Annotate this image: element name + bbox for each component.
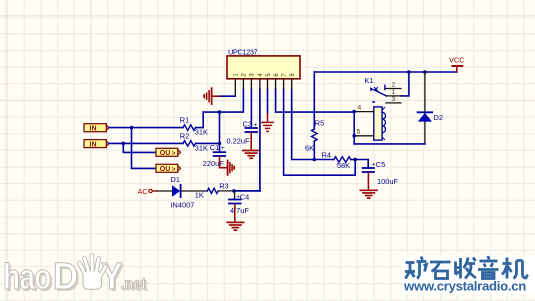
ground (pin 5) xyxy=(262,122,273,131)
svg-text:0.22uF: 0.22uF xyxy=(227,136,250,145)
svg-text:5: 5 xyxy=(357,129,361,136)
contact pin 3 xyxy=(373,101,377,103)
wire coil bottom to D2 xyxy=(354,143,425,145)
wire pin2 down and left xyxy=(203,90,243,113)
svg-text:6K: 6K xyxy=(305,143,314,152)
svg-text:100uF: 100uF xyxy=(377,177,398,186)
armature pivot xyxy=(370,87,374,91)
wire R1 right up to pin2 net xyxy=(196,127,204,129)
pin 5 coil lead xyxy=(354,135,374,137)
ground (below C4) xyxy=(227,222,243,230)
wire C1 riser xyxy=(219,112,221,143)
svg-text:R4: R4 xyxy=(322,150,331,159)
svg-text:VCC: VCC xyxy=(449,56,465,65)
power stub below C1 xyxy=(220,157,228,168)
pin 4 coil lead xyxy=(354,111,374,113)
power stub pin5 ground xyxy=(267,114,269,123)
svg-text:C1: C1 xyxy=(210,143,219,152)
wire rail down to relay common xyxy=(401,72,409,96)
wire pin1 to ground xyxy=(219,95,235,97)
wire R4 to C5 node xyxy=(351,159,355,161)
power stub below C5 xyxy=(367,173,369,190)
resistor R2 xyxy=(180,132,208,153)
port AC xyxy=(138,187,158,196)
wire IN2 tap to OUT1 xyxy=(123,143,156,152)
wire D2 vertical lead xyxy=(424,72,426,144)
wire R3 to C4 node xyxy=(218,190,235,192)
glyph kuang xyxy=(405,257,427,279)
svg-text:IN: IN xyxy=(90,142,97,149)
wire to C5 top xyxy=(355,160,368,168)
svg-text:>: > xyxy=(172,166,176,173)
wire C4 node to pin4 drop xyxy=(235,190,260,192)
wire red stub to signal ground xyxy=(212,95,220,97)
svg-text:R1: R1 xyxy=(180,115,189,124)
glyph yin xyxy=(478,256,499,279)
wire IN2 to R2 xyxy=(109,142,183,144)
ground (below C3) xyxy=(243,151,260,159)
wire IN1 to R1 xyxy=(109,127,183,129)
svg-text:31K: 31K xyxy=(195,127,208,136)
wire D1 to R3 xyxy=(182,190,208,192)
ground (below C5) xyxy=(360,190,377,198)
svg-text:IN4007: IN4007 xyxy=(171,200,195,209)
svg-text:4: 4 xyxy=(358,105,362,112)
node junction IN2 xyxy=(122,142,126,146)
diode D1 IN4007 xyxy=(171,175,195,210)
op-amp U1 UPC1237 body xyxy=(227,48,300,79)
power stub below C4 xyxy=(234,204,236,222)
wire AC to D1 xyxy=(157,190,172,192)
svg-text:+: + xyxy=(254,122,258,129)
svg-text:1K: 1K xyxy=(195,190,204,199)
svg-text:>: > xyxy=(172,150,176,157)
svg-text:4.7uF: 4.7uF xyxy=(230,206,249,215)
svg-text:R2: R2 xyxy=(180,132,189,141)
svg-text:C4: C4 xyxy=(240,193,249,202)
wire R5 bottom to node xyxy=(313,141,315,160)
wire pin5 to ground xyxy=(267,90,269,114)
resistor R4 xyxy=(322,150,351,170)
svg-text:31K: 31K xyxy=(195,143,208,152)
svg-text:www.crystalradio.cn: www.crystalradio.cn xyxy=(403,279,526,294)
wire node to R4 xyxy=(314,159,334,161)
svg-text:OU: OU xyxy=(160,166,171,173)
node junction coil top xyxy=(352,110,356,114)
svg-text:D2: D2 xyxy=(434,113,443,122)
capacitor C3 xyxy=(227,119,258,145)
node junction IN1 xyxy=(130,126,134,130)
resistor R1 xyxy=(180,115,208,136)
wire pin6 to relay coil xyxy=(276,90,355,113)
ground (rotated, pin 1) xyxy=(204,88,211,104)
pin 7 lead xyxy=(283,79,285,90)
wire pin3 to C3 xyxy=(250,90,252,128)
capacitor C4 xyxy=(229,191,249,215)
svg-text:R3: R3 xyxy=(219,181,228,190)
svg-text:K1: K1 xyxy=(364,76,373,85)
svg-text:3: 3 xyxy=(392,96,396,103)
svg-text:+: + xyxy=(221,145,225,152)
svg-text:OU: OU xyxy=(160,150,171,157)
resistor R5 xyxy=(305,119,324,153)
glyph shou xyxy=(456,258,477,279)
node junction relay feed xyxy=(407,70,411,74)
watermark crystalradio box xyxy=(402,255,535,294)
wire down to R1 xyxy=(202,112,204,128)
armature blade xyxy=(374,90,387,96)
svg-text:AC: AC xyxy=(138,187,149,196)
glyph shi xyxy=(430,262,451,279)
wire VCC rail xyxy=(314,71,457,73)
node junction R5/R4/pin8 xyxy=(313,158,317,162)
relay K1 xyxy=(364,76,401,103)
svg-text:D: D xyxy=(53,255,78,298)
svg-text:R5: R5 xyxy=(315,119,324,128)
wire pin4 long drop to AC node xyxy=(259,90,261,191)
port IN 1 xyxy=(84,124,109,133)
svg-text:UPC1237: UPC1237 xyxy=(228,48,258,57)
svg-text:2: 2 xyxy=(392,81,396,88)
port OUT 2 xyxy=(156,164,181,173)
node junction D2 top xyxy=(423,70,427,74)
glyph ji xyxy=(502,258,528,279)
svg-text:58K: 58K xyxy=(337,161,350,170)
svg-text:D1: D1 xyxy=(171,175,180,184)
power stub below C3 xyxy=(250,133,252,150)
svg-text:IN: IN xyxy=(90,126,97,133)
wire pin7 down right and up to C5 node xyxy=(284,90,356,176)
svg-text:1: 1 xyxy=(392,89,396,96)
svg-text:220uF: 220uF xyxy=(203,159,224,168)
wire IN1 tap to OUT2 xyxy=(132,128,157,169)
svg-text:hao: hao xyxy=(3,257,51,297)
pin 5 lead xyxy=(267,79,269,90)
resistor R3 xyxy=(195,181,229,199)
capacitor C1 xyxy=(203,143,225,168)
node junction C4 xyxy=(232,189,236,193)
diode D2 xyxy=(418,112,443,122)
power port VCC xyxy=(449,56,465,72)
pin 3 lead xyxy=(250,79,252,90)
port IN 2 xyxy=(84,140,109,149)
watermark haoDIY.net xyxy=(3,255,148,300)
svg-text:C3: C3 xyxy=(243,119,252,128)
wire pin8 to R5/R4 node xyxy=(292,90,315,160)
svg-text:Y: Y xyxy=(101,256,123,298)
svg-text:C5: C5 xyxy=(376,160,385,169)
capacitor C5 xyxy=(363,160,399,186)
node junction coil bottom xyxy=(352,134,356,138)
wire R5 riser from rail xyxy=(313,72,315,129)
ground (rotated, C1) xyxy=(228,161,235,175)
pin 4 lead xyxy=(259,79,261,90)
node junction C1 xyxy=(218,142,222,146)
node junction C5 xyxy=(353,158,357,162)
pin 8 lead xyxy=(291,79,293,90)
relay K1 coil xyxy=(374,107,386,140)
svg-text:.net: .net xyxy=(121,276,147,294)
wire R2 right to C1 node xyxy=(196,142,220,144)
pin 1 lead xyxy=(234,79,236,96)
pin 2 lead xyxy=(242,79,244,90)
port OUT 1 xyxy=(156,148,181,157)
wire coil side riser xyxy=(353,112,355,144)
node junction C1 riser top xyxy=(218,110,222,114)
contact bar pin 2 xyxy=(384,85,386,89)
hand icon xyxy=(79,256,105,290)
pin 6 lead xyxy=(275,79,277,90)
